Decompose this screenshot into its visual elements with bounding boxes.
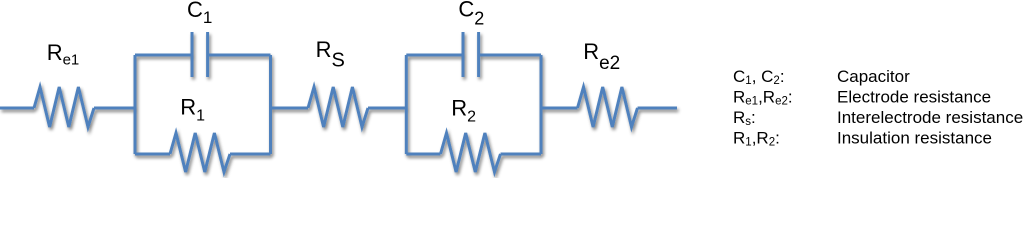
svg-text:C1: C1	[187, 0, 212, 27]
svg-text:C1, C2:: C1, C2:	[733, 67, 785, 87]
wire: block1 bottom-left to R1	[135, 153, 170, 156]
wire: block2 bottom-left to R2	[406, 153, 440, 156]
svg-text:R1: R1	[180, 94, 205, 124]
wire: R1 to block1 bottom-right	[230, 153, 271, 156]
svg-text:RS: RS	[316, 37, 345, 72]
svg-text:Interelectrode resistance: Interelectrode resistance	[837, 108, 1023, 127]
wire: block2 top-left to C2	[406, 54, 463, 57]
capacitor C2 plate 2	[477, 32, 480, 77]
wire: Rs to parallel block 2	[368, 107, 406, 110]
svg-text:Electrode resistance: Electrode resistance	[837, 87, 991, 106]
svg-text:C2: C2	[458, 0, 484, 29]
resistor Re1	[34, 87, 94, 127]
svg-text:Capacitor: Capacitor	[837, 67, 910, 86]
svg-text:R2: R2	[451, 95, 476, 125]
svg-text:Insulation resistance: Insulation resistance	[837, 129, 992, 148]
capacitor C1 plate 2	[206, 32, 209, 77]
wire: C2 to block2 top-right	[479, 54, 541, 57]
wire: C1 to block1 top-right	[208, 54, 271, 57]
wire: left lead into Re1	[0, 107, 34, 110]
capacitor C1 plate 1	[191, 32, 194, 77]
svg-text:Re1,Re2:: Re1,Re2:	[733, 87, 793, 107]
svg-text:Rs:: Rs:	[733, 108, 756, 128]
svg-text:Re2: Re2	[583, 39, 620, 74]
node: parallel block 1 left rail	[134, 55, 137, 154]
resistor R1	[170, 133, 230, 172]
svg-text:Re1: Re1	[47, 40, 80, 68]
node: parallel block 2 left rail	[405, 55, 408, 154]
wire: Re1 to parallel block 1	[94, 107, 135, 110]
wire: block2 to Re2	[541, 107, 578, 110]
resistor R2	[441, 133, 501, 172]
capacitor C2 plate 1	[462, 32, 465, 77]
wire: block1 top-left to C1	[135, 54, 192, 57]
wire: right lead out of Re2	[638, 107, 678, 110]
node: parallel block 2 right rail	[540, 55, 543, 154]
resistor Rs	[308, 87, 368, 127]
resistor Re2	[578, 87, 638, 127]
svg-text:R1,R2:: R1,R2:	[733, 129, 780, 149]
node: parallel block 1 right rail	[269, 55, 272, 154]
legend	[733, 67, 1023, 149]
wire: R2 to block2 bottom-right	[501, 153, 542, 156]
wire: block1 to Rs	[271, 107, 309, 110]
